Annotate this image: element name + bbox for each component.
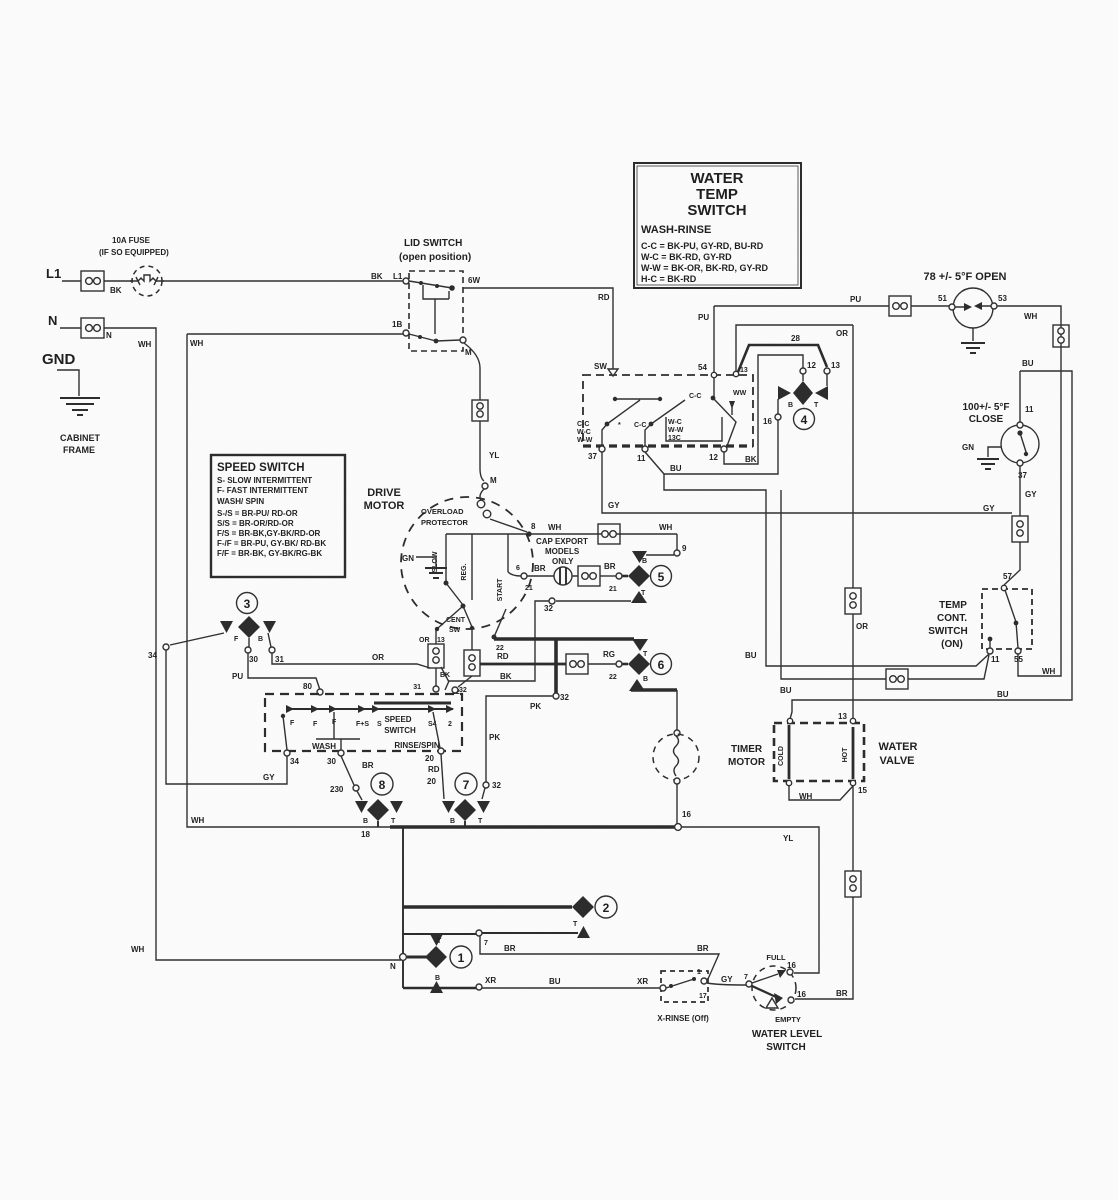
wire BK from terminal 12 loop to circle 12 xyxy=(724,355,803,464)
lid switch lower contact arm xyxy=(409,334,436,341)
wire BK from motor 22 up to 32 line xyxy=(445,601,549,690)
wire RD 20 to group 7 xyxy=(441,754,444,799)
speed switch contact bar xyxy=(291,708,453,710)
drive motor dashed circle xyxy=(401,497,533,629)
motor slow winding xyxy=(445,534,447,581)
temp control switch terminals 11 and 55 xyxy=(987,648,993,654)
node 31 xyxy=(268,633,271,647)
temp control switch interior xyxy=(1001,585,1006,590)
connector below cent switch OR side xyxy=(435,630,437,686)
heavy bottom bus xyxy=(390,825,675,829)
bus junction node 16 xyxy=(675,824,682,831)
water valve terminal 13 xyxy=(850,718,855,723)
wire BU inner with connector to TCS 11 xyxy=(781,490,989,679)
water temp switch terminal 37 xyxy=(599,446,605,452)
node circle 12 xyxy=(800,368,806,374)
speed switch top terminal 32 xyxy=(452,687,458,693)
water temp switch terminal 54 xyxy=(711,372,716,377)
arrow up into group 5 from 32 line xyxy=(631,591,647,603)
connector on WH right wire xyxy=(1053,325,1069,347)
wire BU from 100F-11 to water valve 11 xyxy=(790,371,1072,719)
circled number 8 xyxy=(371,773,393,795)
ground at 78F thermostat xyxy=(972,328,974,341)
wire PU to 78F thermostat xyxy=(714,305,949,307)
heavy wire PK chain from motor 22 xyxy=(554,639,558,694)
node 34 left xyxy=(170,633,224,645)
node BR 21 at group 5 xyxy=(600,575,616,577)
temp control switch box xyxy=(982,589,1032,649)
wire BK fuse to lid switch xyxy=(163,280,403,282)
lid switch upper contact arm xyxy=(409,281,452,288)
connector on motor WH wire xyxy=(598,524,620,544)
motor internal top bus WH xyxy=(446,533,677,535)
water level switch empty contact xyxy=(752,986,776,997)
connector on BU inner wire xyxy=(886,669,908,689)
circled number 2 xyxy=(595,896,617,918)
wire WH from 78F right side down to temp control switch 55 xyxy=(997,306,1061,676)
connector on GY wire xyxy=(1012,516,1028,542)
motor start contact 22 xyxy=(492,635,497,640)
water valve box xyxy=(774,723,864,781)
wire WH down to node 9 xyxy=(676,534,678,550)
wire L1 lead xyxy=(62,280,81,282)
water temp switch terminal 13 top xyxy=(733,371,738,376)
connector on BR capacitor wire xyxy=(578,566,600,586)
water level switch full contact xyxy=(787,969,793,975)
water temp switch interior contacts xyxy=(577,378,747,446)
motor terminal M xyxy=(482,483,488,489)
x-rinse switch box xyxy=(661,971,708,1002)
wire BK from connector to fuse xyxy=(104,280,133,282)
lid switch terminal M xyxy=(460,337,466,343)
water temp switch terminal 11 xyxy=(642,446,648,452)
connector on N line xyxy=(81,318,104,338)
speed switch box xyxy=(265,694,462,751)
wire RD heavy from motor connector to group 6 xyxy=(480,663,566,666)
speed switch legend box xyxy=(211,455,345,577)
connector on YL wire xyxy=(472,400,488,421)
wire YL from M down to motor xyxy=(464,343,484,481)
fuse 10A (dashed circle with element) xyxy=(130,266,164,296)
wire WH lid switch return down to bottom bus xyxy=(187,334,390,827)
motor terminal 6 BR 21 to capacitor xyxy=(521,573,527,579)
heavy wire to group 2 xyxy=(403,905,572,909)
wire YL bus to water level switch full 16 xyxy=(681,827,819,973)
wire GY loop 34 to speed switch 34 xyxy=(166,650,287,784)
motor reg winding xyxy=(471,534,473,600)
lid switch terminal 1B xyxy=(403,330,409,336)
junction group 7 diamond and arrows xyxy=(442,801,455,813)
heavy XR wire bottom xyxy=(403,987,476,990)
wire BU to x-rinse xyxy=(482,987,661,989)
connector on BR valve wire xyxy=(845,871,861,897)
lid switch mechanical link xyxy=(423,285,449,334)
connector on RD wire xyxy=(566,654,588,674)
heavy wire motor 22 to group 6 top xyxy=(494,637,634,641)
wire BR from node 7 to x-rinse 1 xyxy=(480,936,719,979)
arrow up into group 2 xyxy=(577,926,590,938)
lid switch terminal L1 xyxy=(403,278,409,284)
water valve terminal 11 xyxy=(787,718,792,723)
wire down from bus to groups 1 and 2 xyxy=(402,827,404,988)
junction group 3 diamond and arrows xyxy=(238,616,260,638)
wire 6W lid switch to water temp switch xyxy=(463,288,613,370)
wire BR 30 to group 8 xyxy=(341,756,354,785)
wire from 7 node to group 2 arrow xyxy=(403,933,578,934)
junction group 6 diamond xyxy=(628,653,650,675)
connector below cent switch RD side xyxy=(458,628,472,687)
wire WH neutral down left side xyxy=(104,328,401,960)
node 30 xyxy=(248,638,250,647)
water temp switch terminal 12 xyxy=(721,446,727,452)
node circle 13 xyxy=(824,368,830,374)
connector on L1 line xyxy=(81,271,104,291)
circled number 5 xyxy=(651,566,672,587)
motor contact to BK xyxy=(441,667,449,682)
wire OR loop from 13 top to group-4 xyxy=(736,325,853,371)
water valve hot coil xyxy=(852,727,855,779)
water temp switch terminal SW xyxy=(608,369,618,376)
wire BR from valve down to water level switch empty 16 xyxy=(795,786,853,999)
junction group 4 arrows xyxy=(778,386,791,400)
motor start winding xyxy=(507,534,509,572)
water temp switch box xyxy=(583,375,753,446)
wire 28 heavy link 13 to circle 13 xyxy=(738,345,827,372)
connector on OR wire xyxy=(845,588,861,614)
wire BU pocket down to temp control switch 11 xyxy=(664,474,989,666)
arrow up into group 1 from XR line xyxy=(430,981,443,993)
junction group 8 diamond and arrows xyxy=(355,801,368,813)
circled number 1 xyxy=(450,946,472,968)
circled number 3 xyxy=(237,593,258,614)
speed switch link to 30 xyxy=(316,712,360,750)
water valve bottom terminals and WH jumper xyxy=(786,780,791,785)
speed switch wash arm to 34 xyxy=(281,714,285,718)
wire OR down right side to water valve 13 xyxy=(852,325,854,719)
arrow down into group 1 xyxy=(430,934,443,946)
speed switch top terminal 31 xyxy=(433,686,439,692)
junction group 5 diamond xyxy=(628,565,650,587)
wire GY 100F-37 down to temp control switch 57 xyxy=(1004,466,1020,585)
water valve cold coil xyxy=(788,725,791,779)
circled number 4 xyxy=(794,409,815,430)
wire PU down to water temp switch 54 xyxy=(713,306,715,372)
wire N lead xyxy=(60,327,81,329)
water level switch xyxy=(752,966,796,1010)
wire WH from N-line to lid switch 1B xyxy=(187,333,403,335)
junction group 2 diamond xyxy=(572,896,594,918)
wire BU from water temp 11 to 16 xyxy=(645,420,778,474)
node circle 16 xyxy=(775,414,781,420)
wire PU 30 to speed switch 80 xyxy=(248,653,320,690)
wire GY from water temp switch 37 xyxy=(602,452,1012,513)
wire OR 31 to motor cent switch xyxy=(272,653,430,668)
arrow from node 9 into group 5 xyxy=(646,554,674,556)
water temp switch legend box xyxy=(634,163,801,288)
arrow up into group 6 from bottom bus xyxy=(629,679,645,691)
junction group 1 diamond xyxy=(407,956,428,959)
wire GY x-rinse to water level switch xyxy=(707,983,746,985)
speed switch rinse arm to 20 xyxy=(433,712,440,748)
node N junction xyxy=(400,954,407,961)
circled number 6 xyxy=(651,654,672,675)
timer motor xyxy=(676,690,678,731)
circled number 7 xyxy=(455,773,477,795)
connector on PU wire xyxy=(889,296,911,316)
